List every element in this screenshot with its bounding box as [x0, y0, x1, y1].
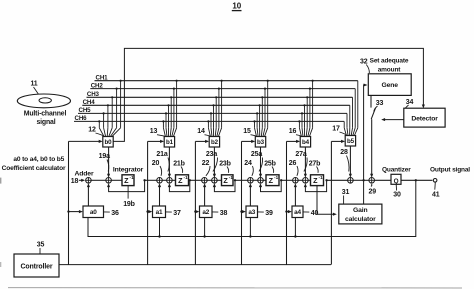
svg-text:12: 12 [88, 127, 96, 134]
svg-text:Z: Z [269, 176, 274, 185]
adder stage1 second (19a input) [106, 178, 112, 184]
label Quantizer [382, 166, 411, 173]
svg-text:16: 16 [289, 128, 297, 135]
text Multi-channel signal [24, 110, 67, 126]
wire b4 output to adder [304, 147, 307, 178]
svg-text:b2: b2 [211, 139, 219, 146]
label 26 [289, 160, 298, 176]
coefficient wire from controller to b2 and a2 [194, 140, 209, 265]
text coefficient calculator caption [2, 156, 66, 172]
delay Z4 [266, 175, 279, 186]
label 39 [258, 210, 273, 217]
adder 29 (dither input) [369, 178, 375, 184]
label 21b [173, 160, 185, 173]
integrator loop stage1 [107, 179, 146, 192]
svg-text:a2: a2 [202, 209, 209, 216]
coefficient multiplier a0 [83, 206, 104, 218]
svg-text:a3: a3 [248, 209, 255, 216]
svg-text:19b: 19b [123, 201, 135, 208]
svg-text:-1: -1 [274, 175, 279, 180]
label CH4 [83, 99, 96, 106]
svg-text:-1: -1 [229, 175, 234, 180]
svg-text:33: 33 [376, 100, 384, 107]
wire [145, 179, 157, 181]
label 17 [332, 126, 347, 137]
wire [298, 179, 302, 181]
detector box [404, 108, 445, 127]
svg-text:signal: signal [36, 119, 55, 126]
label 28 [340, 149, 349, 172]
coefficient multiplier a3 [246, 206, 258, 218]
label Integrator [113, 167, 144, 174]
svg-text:Gain: Gain [353, 207, 368, 214]
wire [190, 179, 202, 181]
delay Z2 [176, 175, 189, 186]
multiplier b1 [164, 137, 174, 148]
wire [207, 179, 211, 181]
controller box [14, 254, 59, 277]
label 27b [309, 160, 321, 173]
gain calculator box [339, 204, 382, 224]
svg-text:39: 39 [265, 210, 273, 217]
text Output signal [430, 166, 470, 173]
label 15 [243, 128, 258, 137]
wire [111, 179, 122, 181]
fan wires channels into b3 [253, 80, 268, 137]
delay Z3 [222, 175, 234, 186]
svg-text:37: 37 [173, 210, 181, 217]
feedback bus quantizer output to a0-a4 [88, 180, 416, 237]
adder (a2 input) [202, 178, 208, 184]
wire b0 output to top bus to detector [113, 48, 425, 141]
svg-text:27a: 27a [295, 151, 306, 158]
label 38 [213, 210, 228, 217]
label CH6 [75, 115, 88, 122]
wire CH2 [90, 88, 355, 90]
svg-text:Multi-channel: Multi-channel [24, 110, 67, 117]
svg-text:36: 36 [111, 210, 119, 217]
wire CH3 [87, 96, 353, 98]
svg-text:Gene: Gene [381, 82, 398, 89]
wire stage5 to gain calculator [317, 186, 337, 216]
label 13 [150, 128, 167, 137]
integrator loop stage2 [168, 179, 191, 192]
fan wires channels into b5 [344, 81, 358, 136]
label 23a [206, 151, 218, 171]
svg-text:41: 41 [432, 191, 440, 198]
svg-text:-1: -1 [130, 175, 135, 180]
svg-text:Q: Q [394, 178, 399, 185]
label 19a [99, 153, 110, 172]
wire [281, 179, 292, 181]
wire [235, 179, 248, 181]
label 35 [37, 241, 45, 253]
quantizer Q [391, 174, 401, 185]
fan wires channels into b1 [162, 80, 177, 137]
svg-text:29: 29 [369, 189, 377, 196]
svg-text:Z: Z [223, 176, 228, 185]
text Set adequate amount [370, 57, 409, 73]
coefficient wire from controller to b5 [331, 140, 345, 265]
svg-text:Output signal: Output signal [430, 166, 470, 173]
figure title 10 [232, 1, 242, 10]
wire b5 output to adder [349, 146, 352, 178]
scan artifact marks [0, 178, 462, 288]
label 25a [251, 151, 263, 171]
svg-text:b5: b5 [347, 138, 355, 145]
svg-text:Z: Z [313, 176, 318, 185]
svg-text:a0 to a4, b0 to b5: a0 to a4, b0 to b5 [13, 156, 64, 163]
multiplier b2 [209, 137, 219, 148]
output terminal 41 [433, 179, 437, 183]
integrator loop stage5 [304, 179, 328, 192]
wire quantizer output [401, 179, 432, 181]
svg-text:20: 20 [152, 160, 160, 167]
svg-text:25b: 25b [264, 160, 276, 167]
label Adder [75, 170, 94, 177]
wire [162, 179, 166, 181]
multiplier b5 [345, 136, 355, 147]
svg-text:15: 15 [243, 128, 251, 135]
wire a1 output to adder [158, 183, 161, 206]
svg-text:b0: b0 [105, 139, 113, 146]
svg-text:14: 14 [197, 128, 205, 135]
svg-text:23a: 23a [206, 151, 217, 158]
wire CH1 [95, 80, 358, 82]
label 32 [360, 58, 369, 73]
delay Z5 [311, 175, 324, 186]
fan wires channels into b4 [298, 80, 313, 137]
svg-text:30: 30 [393, 192, 401, 199]
adder (a3 input) [248, 178, 254, 184]
coefficient multiplier a4 [292, 206, 303, 218]
label 12 [88, 127, 105, 138]
wire CH6 [74, 120, 344, 122]
svg-text:27b: 27b [309, 160, 321, 167]
svg-text:28: 28 [340, 149, 348, 156]
svg-text:Set adequate: Set adequate [370, 57, 409, 64]
wire b0 output to adder [107, 147, 110, 178]
label 41 [432, 182, 440, 198]
svg-text:Detector: Detector [411, 115, 438, 122]
multiplier b0 [103, 137, 113, 148]
label 24 [244, 160, 253, 176]
fan wires channels into b0 [98, 80, 121, 137]
svg-text:amount: amount [378, 67, 402, 74]
svg-text:Z: Z [124, 176, 129, 185]
svg-text:10: 10 [232, 1, 241, 10]
coefficient wire from controller to b3 and a3 [240, 140, 255, 265]
svg-text:Controller: Controller [21, 263, 53, 270]
label 34 [406, 99, 414, 108]
label 31 [342, 189, 350, 204]
integrator loop stage3 [213, 179, 236, 192]
wire CH4 [82, 104, 350, 106]
label 23b [219, 160, 231, 173]
svg-text:34: 34 [406, 99, 414, 106]
wire [375, 179, 392, 181]
svg-text:-1: -1 [184, 175, 189, 180]
controller bus wire [59, 264, 331, 266]
wire b1 output to adder [168, 147, 171, 178]
multiplier b3 [255, 137, 265, 148]
label 30 [393, 185, 401, 199]
label 20 [152, 160, 162, 176]
label 33 [374, 100, 384, 112]
svg-text:Adder: Adder [75, 170, 94, 177]
svg-text:22: 22 [202, 160, 210, 167]
label CH1 [96, 74, 109, 81]
svg-text:31: 31 [342, 189, 350, 196]
wire a3 output to adder [249, 183, 252, 206]
label 37 [166, 210, 181, 217]
wire a2 output to adder [203, 183, 206, 206]
label 22 [202, 160, 210, 176]
svg-text:24: 24 [244, 160, 252, 167]
svg-text:b4: b4 [302, 139, 310, 146]
wire a0 output to adder [87, 183, 90, 206]
label 19b [123, 186, 135, 208]
svg-text:18: 18 [71, 178, 79, 185]
coefficient wire from controller to b0 and a0 [67, 140, 102, 265]
svg-text:a0: a0 [90, 209, 97, 216]
wire [327, 179, 348, 181]
integrator Z1 (delay) [122, 175, 134, 186]
label 25b [264, 160, 276, 173]
svg-text:b1: b1 [166, 139, 174, 146]
svg-text:Z: Z [178, 176, 183, 185]
wire [263, 179, 266, 181]
wire b2 output to adder [213, 147, 216, 178]
switch 33 [370, 95, 376, 177]
coefficient wire from controller to b1 and a1 [146, 140, 164, 265]
adder (b4 input) [303, 178, 309, 184]
svg-text:26: 26 [289, 160, 297, 167]
svg-text:Quantizer: Quantizer [382, 166, 411, 173]
label 11 [30, 81, 39, 96]
wire [217, 179, 221, 181]
coefficient multiplier a2 [200, 206, 213, 218]
wire [172, 179, 175, 181]
label 40 [304, 210, 319, 217]
svg-text:Coefficient calculator: Coefficient calculator [2, 165, 66, 172]
integrator loop stage4 [259, 179, 283, 192]
adder (a4 input) [293, 178, 299, 184]
adder (b1 input) [167, 178, 173, 184]
svg-text:11: 11 [30, 81, 37, 88]
svg-text:-1: -1 [319, 175, 324, 180]
svg-text:Integrator: Integrator [113, 167, 144, 174]
svg-text:35: 35 [37, 241, 45, 248]
label 16 [289, 128, 303, 137]
svg-text:a4: a4 [294, 209, 301, 216]
svg-text:21b: 21b [173, 160, 185, 167]
svg-text:21a: 21a [156, 151, 167, 158]
wire [253, 179, 258, 181]
wire signal to generator and gain calculator [364, 84, 368, 205]
svg-text:19a: 19a [99, 153, 110, 160]
label CH5 [79, 107, 92, 114]
adder 18 (stage1 first) [86, 178, 92, 184]
svg-text:25a: 25a [251, 151, 262, 158]
wire a4 output to adder [294, 183, 297, 206]
svg-text:23b: 23b [219, 160, 231, 167]
svg-text:17: 17 [332, 126, 340, 133]
label CH2 [91, 82, 104, 89]
wire [91, 179, 106, 181]
label 14 [197, 128, 211, 137]
label 18 input arrow [71, 178, 85, 185]
fan wires channels into b2 [207, 80, 222, 137]
wire b3 output to adder [259, 147, 262, 178]
svg-text:b3: b3 [257, 139, 265, 146]
coefficient wire from controller to b4 and a4 [285, 140, 300, 265]
wire [308, 179, 310, 181]
label 36 [104, 210, 119, 217]
adder (a1 input) [157, 178, 163, 184]
label 27a [295, 151, 307, 171]
svg-text:calculator: calculator [345, 216, 376, 223]
coefficient multiplier a1 [153, 206, 166, 218]
wire CH5 [78, 112, 347, 114]
label 21a [156, 151, 169, 171]
label 29 [369, 184, 377, 196]
wire detector controls switch [381, 118, 404, 121]
label CH3 [87, 91, 100, 98]
disc icon (multi-channel source) [17, 94, 70, 108]
wire with tap to gain calculator [353, 179, 369, 181]
svg-text:a1: a1 [156, 209, 163, 216]
adder (b5 input) [348, 178, 354, 184]
svg-text:13: 13 [150, 128, 158, 135]
adder (b3 input) [258, 178, 264, 184]
adder (b2 input) [212, 178, 218, 184]
multiplier b4 [300, 137, 310, 148]
generator box (Gene) [368, 74, 411, 96]
svg-text:38: 38 [220, 210, 228, 217]
